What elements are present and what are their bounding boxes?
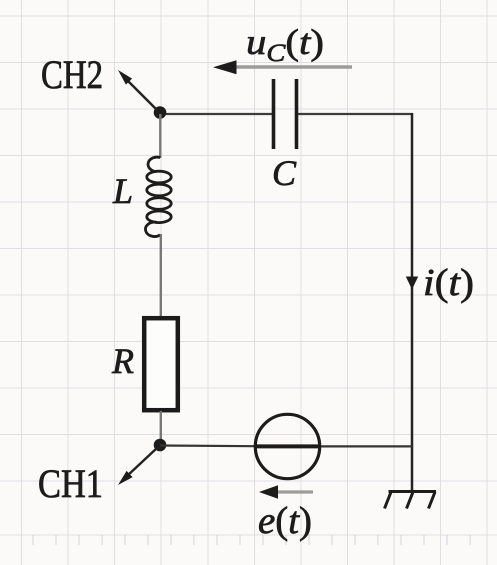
- svg-text:CH1: CH1: [38, 461, 103, 506]
- source U1 circle: [255, 414, 319, 478]
- node A (top): [154, 106, 167, 119]
- ground: [385, 492, 437, 509]
- capacitor C1 plates: [274, 79, 297, 149]
- wire: inductor to resistor: [160, 234, 162, 317]
- CH1 probe arrow: [127, 448, 157, 476]
- current arrow i(t): [406, 277, 418, 290]
- source diameter bar: [254, 444, 321, 448]
- svg-text:uC(t): uC(t): [246, 22, 324, 67]
- wire: bottom node to source: [160, 444, 255, 447]
- wire: source to right branch: [321, 445, 412, 447]
- inductor L1 coil: [145, 157, 171, 236]
- CH2 probe arrow: [126, 79, 157, 110]
- wire: resistor to bottom node: [160, 411, 162, 445]
- wire: top node to capacitor left plate: [160, 113, 272, 115]
- wire: capacitor right plate to top-right corner: [298, 113, 413, 115]
- svg-text:CH2: CH2: [41, 52, 103, 97]
- wire: node to inductor: [159, 114, 161, 158]
- voltage arrow e(t): [276, 490, 313, 493]
- svg-text:i(t): i(t): [423, 262, 474, 304]
- wire: right vertical branch: [411, 113, 414, 491]
- svg-text:C: C: [272, 153, 297, 193]
- node B (bottom): [154, 439, 167, 452]
- voltage arrow u_C(t): [233, 65, 352, 69]
- svg-text:L: L: [112, 171, 133, 211]
- svg-text:e(t): e(t): [258, 500, 312, 542]
- svg-text:R: R: [111, 341, 134, 381]
- resistor R1: [144, 318, 178, 410]
